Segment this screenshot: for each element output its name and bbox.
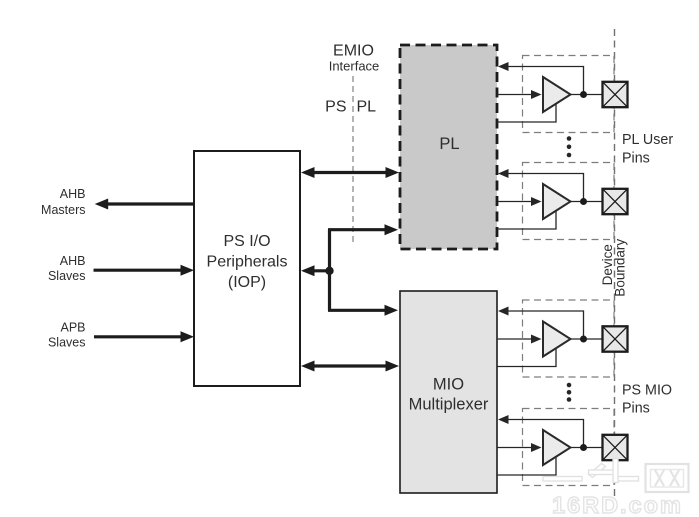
svg-text:EMIO: EMIO — [333, 43, 374, 60]
PS MIO Pins label — [622, 383, 672, 417]
svg-text:Slaves: Slaves — [48, 269, 86, 283]
MIO cells ellipsis dots — [567, 383, 572, 402]
AHB Masters arrow — [95, 199, 194, 210]
svg-text:PL User: PL User — [622, 132, 673, 148]
APB Slaves arrow — [94, 331, 194, 342]
AHB Slaves label — [48, 254, 86, 283]
svg-text:AHB: AHB — [60, 254, 86, 268]
IOP to MIO double arrow — [301, 361, 399, 372]
PL User Pins label — [622, 132, 673, 166]
svg-text:16RD.com: 16RD.com — [552, 492, 683, 517]
EMIO label — [329, 43, 380, 74]
APB Slaves label — [48, 321, 86, 350]
svg-text:Multiplexer: Multiplexer — [409, 395, 489, 413]
svg-text:PS MIO: PS MIO — [622, 383, 672, 399]
EMIO branch to MIO arrow — [328, 305, 398, 316]
AHB Slaves arrow — [94, 265, 195, 276]
PL block — [400, 45, 497, 249]
svg-text:PS I/O: PS I/O — [223, 233, 270, 250]
EMIO interface dashed line — [352, 76, 354, 245]
Device Boundary label — [600, 239, 627, 297]
IO buffer cell PL 1 — [497, 56, 628, 133]
EMIO branch junction dot — [325, 267, 333, 275]
svg-text:Slaves: Slaves — [48, 336, 86, 350]
svg-text:PS: PS — [325, 99, 346, 116]
svg-text:Pins: Pins — [622, 401, 650, 417]
svg-text:Pins: Pins — [622, 150, 650, 166]
svg-text:PL: PL — [439, 135, 459, 153]
EMIO branch into IOP arrow — [301, 265, 331, 276]
svg-text:AHB: AHB — [60, 187, 86, 201]
IO buffer cell MIO 1 — [497, 300, 628, 377]
MIO Multiplexer block — [400, 291, 497, 493]
svg-text:APB: APB — [60, 321, 85, 335]
PS I/O Peripherals (IOP) block — [194, 151, 300, 386]
svg-text:(IOP): (IOP) — [228, 274, 266, 291]
EMIO branch to PL arrow — [328, 224, 398, 235]
AHB Masters label — [41, 187, 85, 217]
IO buffer cell PL 2 — [497, 163, 628, 240]
svg-text:PL: PL — [357, 99, 377, 116]
IOP to PL double arrow — [301, 167, 399, 178]
svg-text:Masters: Masters — [41, 203, 85, 217]
watermark — [543, 459, 689, 517]
PL cells ellipsis dots — [567, 136, 572, 157]
svg-text:Boundary: Boundary — [612, 239, 627, 297]
svg-text:MIO: MIO — [433, 375, 464, 393]
EMIO branch trunk wire — [328, 230, 331, 311]
device boundary dashed line — [614, 29, 616, 497]
svg-text:Interface: Interface — [329, 59, 380, 74]
svg-text:Peripherals: Peripherals — [207, 254, 288, 271]
IO buffer cell MIO 2 — [497, 409, 628, 486]
